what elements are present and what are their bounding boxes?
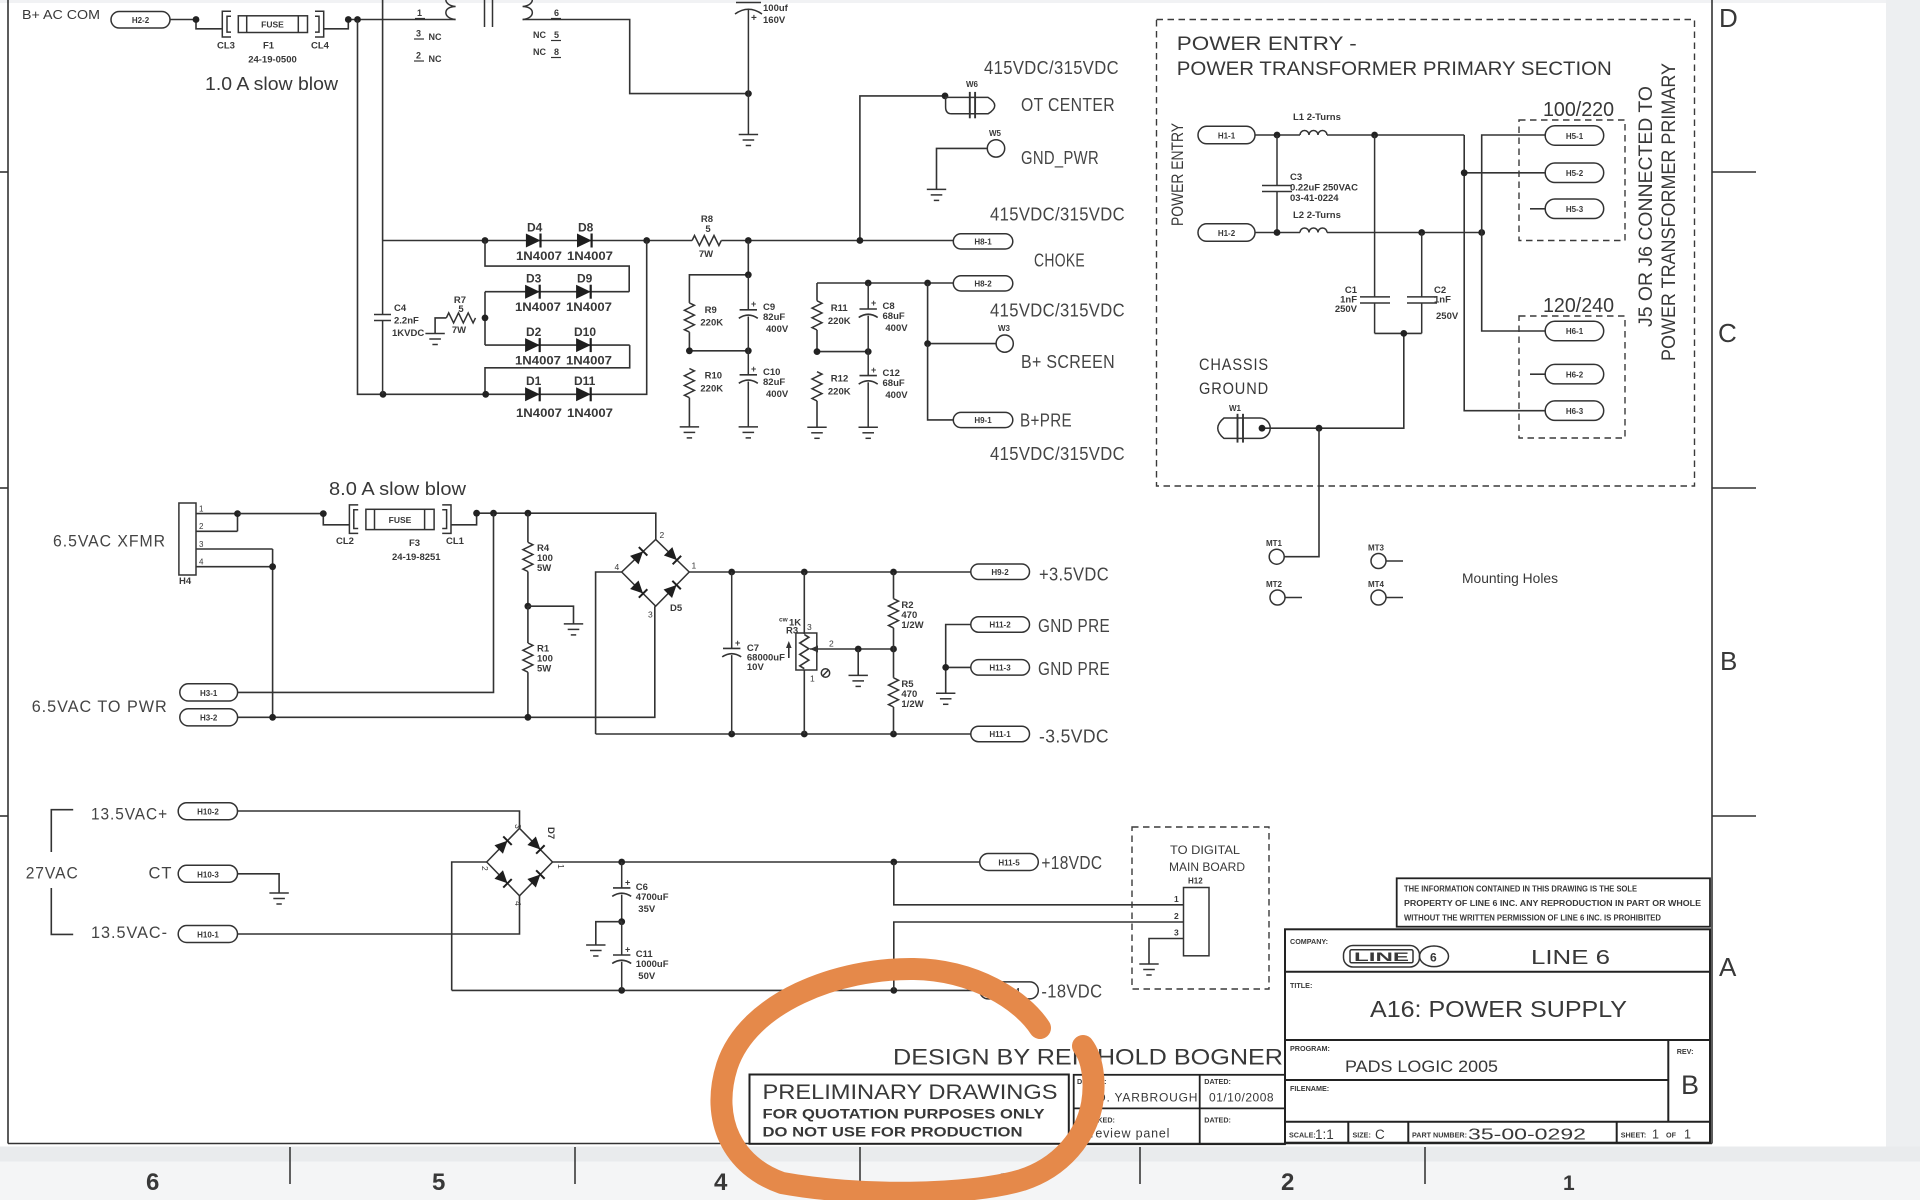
svg-text:D2: D2 bbox=[526, 325, 542, 339]
info box bbox=[1397, 878, 1710, 926]
svg-text:+: + bbox=[751, 364, 756, 374]
svg-text:82uF: 82uF bbox=[763, 377, 785, 388]
svg-text:3: 3 bbox=[1174, 928, 1179, 938]
wire H10-3 to ground bbox=[238, 874, 280, 893]
connector H5-3 bbox=[1545, 199, 1604, 219]
svg-text:13.5VAC+: 13.5VAC+ bbox=[91, 806, 168, 824]
svg-text:C4: C4 bbox=[394, 303, 407, 314]
preliminary drawings box bbox=[750, 1075, 1069, 1144]
svg-text:W3: W3 bbox=[998, 324, 1011, 333]
svg-text:H5-2: H5-2 bbox=[1566, 169, 1584, 178]
svg-text:D7: D7 bbox=[545, 827, 556, 839]
svg-text:1.0 A slow blow: 1.0 A slow blow bbox=[205, 74, 339, 94]
junction bbox=[814, 348, 821, 355]
connector H11-3 bbox=[971, 660, 1030, 676]
label SHEET: 1 OF 1 bbox=[1621, 1128, 1691, 1142]
label C8 68uF 400V bbox=[883, 301, 909, 334]
junction bbox=[193, 16, 200, 23]
diode D3 bbox=[525, 285, 540, 299]
svg-text:400V: 400V bbox=[766, 324, 789, 335]
svg-text:H3-2: H3-2 bbox=[200, 714, 218, 723]
svg-text:B+ AC COM: B+ AC COM bbox=[22, 7, 100, 22]
svg-text:6.5VAC XFMR: 6.5VAC XFMR bbox=[53, 533, 166, 551]
svg-text:400V: 400V bbox=[766, 389, 789, 400]
wire R10 to ground bbox=[688, 398, 690, 427]
svg-text:35V: 35V bbox=[638, 904, 656, 915]
svg-text:415VDC/315VDC: 415VDC/315VDC bbox=[984, 58, 1119, 78]
ground (C6/C11 mid) bbox=[586, 945, 605, 956]
junction bbox=[745, 347, 752, 354]
svg-text:+: + bbox=[735, 638, 740, 648]
mounting hole MT3 bbox=[1371, 554, 1403, 569]
connector H6-3 bbox=[1545, 401, 1604, 421]
svg-text:H11-2: H11-2 bbox=[989, 621, 1011, 630]
bracket 27VAC bbox=[51, 810, 73, 935]
svg-text:PROGRAM:: PROGRAM: bbox=[1290, 1044, 1330, 1053]
label C7 68000uF 10V bbox=[747, 643, 785, 673]
svg-text:REV:: REV: bbox=[1677, 1047, 1694, 1056]
label C11 1000uF 50V bbox=[636, 949, 669, 982]
svg-text:+: + bbox=[751, 13, 757, 24]
svg-text:GND PRE: GND PRE bbox=[1038, 659, 1110, 679]
svg-text:CL3: CL3 bbox=[217, 41, 235, 52]
junction bbox=[1461, 169, 1468, 176]
resistor R12 bbox=[812, 372, 822, 401]
svg-text:-18VDC: -18VDC bbox=[1041, 982, 1102, 1002]
svg-text:D8: D8 bbox=[578, 221, 594, 235]
wire L1 output bbox=[1327, 134, 1464, 136]
dashed box TO DIGITAL MAIN BOARD bbox=[1132, 827, 1269, 989]
svg-text:3: 3 bbox=[648, 610, 653, 620]
wire D3/D9 return loop bbox=[485, 241, 629, 292]
svg-text:DATED:: DATED: bbox=[1204, 1077, 1231, 1086]
wire chassis to MT1 bbox=[1284, 428, 1319, 557]
wire H6-2 stub bbox=[1530, 373, 1545, 375]
junction (R7 tap) bbox=[482, 315, 489, 322]
svg-text:6: 6 bbox=[146, 1169, 159, 1196]
pin 1 label bbox=[415, 8, 425, 19]
svg-text:01/10/2008: 01/10/2008 bbox=[1209, 1091, 1274, 1105]
junction bbox=[269, 714, 276, 721]
svg-text:4: 4 bbox=[714, 1169, 728, 1196]
ground (R12) bbox=[807, 427, 826, 438]
junction bbox=[269, 563, 276, 570]
wire pin6 to C5 node bbox=[523, 20, 749, 94]
svg-text:-3.5VDC: -3.5VDC bbox=[1039, 727, 1109, 747]
title block frame bbox=[1285, 929, 1710, 1142]
svg-text:160V: 160V bbox=[763, 15, 786, 26]
svg-text:2: 2 bbox=[660, 530, 665, 540]
svg-text:1: 1 bbox=[1174, 894, 1179, 904]
zone ticks bottom bbox=[290, 1147, 1425, 1184]
svg-text:H1-2: H1-2 bbox=[1218, 229, 1236, 238]
ground (H11-2/3) bbox=[936, 693, 955, 704]
label R1 100 5W bbox=[537, 644, 553, 675]
wire H9-1 branch bbox=[928, 344, 954, 420]
fuse clip CL3 bbox=[222, 11, 231, 37]
diode D9 bbox=[576, 285, 591, 299]
svg-text:POWER TRANSFORMER PRIMARY: POWER TRANSFORMER PRIMARY bbox=[1659, 63, 1680, 361]
svg-text:H6-2: H6-2 bbox=[1566, 370, 1584, 379]
svg-text:cw: cw bbox=[779, 617, 789, 624]
svg-text:4: 4 bbox=[199, 558, 204, 567]
svg-text:R10: R10 bbox=[705, 371, 722, 382]
svg-text:MAIN BOARD: MAIN BOARD bbox=[1169, 862, 1245, 874]
svg-text:5: 5 bbox=[432, 1169, 445, 1196]
ground (H12) bbox=[1139, 964, 1158, 975]
ground (C12) bbox=[859, 427, 878, 438]
junction bbox=[855, 646, 862, 653]
svg-text:H4: H4 bbox=[179, 576, 192, 587]
svg-text:review panel: review panel bbox=[1090, 1127, 1170, 1141]
wire H4 pin3/pin4 bbox=[196, 549, 273, 717]
svg-text:1/2W: 1/2W bbox=[901, 620, 923, 631]
wire H11-3 bbox=[946, 667, 971, 693]
svg-text:MT4: MT4 bbox=[1368, 580, 1385, 589]
wire B+ rail (D4/D8 row) bbox=[383, 240, 954, 242]
capacitor C10 82uF 400V bbox=[739, 351, 758, 427]
capacitor C9 82uF 400V bbox=[739, 275, 758, 351]
connector H11-5 bbox=[980, 854, 1039, 871]
ground (CT) bbox=[269, 893, 288, 904]
connector H4 bbox=[179, 503, 204, 587]
label R8 5 7W bbox=[699, 214, 713, 260]
svg-text:35-00-0292: 35-00-0292 bbox=[1468, 1127, 1586, 1144]
resistor R1 bbox=[523, 606, 533, 717]
capacitor C1 1nF 250V bbox=[1360, 135, 1390, 333]
label C9 82uF 400V bbox=[763, 302, 789, 335]
wire L1 node to H5-2 and H6-3 bbox=[1464, 135, 1545, 411]
connector H9-1 bbox=[953, 412, 1013, 427]
svg-text:NC: NC bbox=[429, 32, 442, 42]
svg-text:PRELIMINARY DRAWINGS: PRELIMINARY DRAWINGS bbox=[763, 1080, 1058, 1104]
wire D7 pin2 to -18 rail bbox=[452, 862, 980, 990]
junction bbox=[924, 340, 931, 347]
svg-text:TITLE:: TITLE: bbox=[1290, 981, 1312, 990]
svg-text:5: 5 bbox=[705, 224, 711, 235]
connector H9-2 bbox=[971, 564, 1030, 580]
connector H8-1 bbox=[953, 234, 1013, 249]
svg-text:H10-3: H10-3 bbox=[197, 870, 219, 879]
junction bbox=[1478, 229, 1485, 236]
junction bbox=[525, 714, 532, 721]
svg-text:A: A bbox=[1719, 952, 1737, 982]
diode D1 bbox=[525, 387, 540, 401]
svg-text:D1: D1 bbox=[526, 374, 542, 388]
svg-text:D3: D3 bbox=[526, 272, 542, 286]
svg-text:220K: 220K bbox=[700, 318, 723, 329]
svg-text:1N4007: 1N4007 bbox=[516, 406, 562, 420]
junction bbox=[924, 280, 931, 287]
svg-text:B: B bbox=[1681, 1070, 1699, 1100]
capacitor C2 1nF 250V bbox=[1407, 233, 1437, 334]
svg-text:D: D bbox=[1719, 3, 1738, 33]
junction bbox=[618, 918, 625, 925]
svg-text:1N4007: 1N4007 bbox=[567, 249, 613, 263]
svg-text:R9: R9 bbox=[705, 305, 717, 316]
svg-text:5: 5 bbox=[458, 304, 464, 315]
resistor R2 bbox=[889, 572, 899, 649]
svg-text:3: 3 bbox=[199, 540, 204, 549]
pin 2 NC label bbox=[414, 51, 442, 65]
junction bbox=[890, 731, 897, 738]
svg-text:L2 2-Turns: L2 2-Turns bbox=[1293, 210, 1341, 221]
svg-text:1: 1 bbox=[556, 864, 566, 869]
svg-text:L1 2-Turns: L1 2-Turns bbox=[1293, 112, 1341, 123]
connector H3-2 bbox=[180, 709, 238, 726]
potentiometer R3 1K bbox=[786, 572, 832, 734]
svg-text:1000uF: 1000uF bbox=[636, 959, 669, 970]
label TO DIGITAL MAIN BOARD bbox=[1169, 845, 1245, 874]
section title POWER ENTRY - POWER TRANSFORMER PRIMARY SECTION bbox=[1177, 33, 1612, 80]
svg-text:W5: W5 bbox=[989, 129, 1002, 138]
svg-text:1: 1 bbox=[1684, 1128, 1691, 1142]
junction bbox=[865, 348, 872, 355]
connector H11-2 bbox=[971, 617, 1030, 633]
svg-text:F3: F3 bbox=[409, 538, 420, 549]
junction bbox=[1259, 425, 1266, 432]
connector H3-1 bbox=[180, 684, 238, 701]
wire H10-1 to bridge pin 4 bbox=[238, 896, 520, 934]
label R5 470 1/2W bbox=[901, 679, 923, 710]
bridge rectifier D7 bbox=[487, 828, 553, 896]
label R9 220K bbox=[700, 305, 723, 329]
svg-text:C: C bbox=[1718, 318, 1737, 348]
svg-text:H6-1: H6-1 bbox=[1566, 327, 1584, 336]
svg-text:1N4007: 1N4007 bbox=[567, 406, 613, 420]
ground (C5) bbox=[739, 135, 758, 146]
svg-text:D5: D5 bbox=[670, 603, 683, 614]
connector W5 bbox=[987, 140, 1004, 157]
connector H8-2 bbox=[953, 276, 1013, 291]
svg-text:LINE 6: LINE 6 bbox=[1531, 947, 1610, 969]
wire H12 pin 3 to ground bbox=[1149, 939, 1184, 965]
svg-text:H11-5: H11-5 bbox=[998, 859, 1020, 868]
svg-text:50V: 50V bbox=[638, 971, 656, 982]
wire H5-3 stub bbox=[1530, 208, 1545, 210]
ground (W5) bbox=[927, 189, 946, 200]
svg-text:1: 1 bbox=[810, 674, 815, 684]
junction bbox=[1418, 229, 1425, 236]
svg-text:1: 1 bbox=[692, 561, 697, 571]
svg-text:220K: 220K bbox=[700, 384, 723, 395]
junction bbox=[1400, 330, 1407, 337]
svg-text:H10-2: H10-2 bbox=[197, 808, 219, 817]
svg-text:1: 1 bbox=[1563, 1172, 1575, 1195]
svg-text:+18VDC: +18VDC bbox=[1041, 853, 1102, 873]
svg-text:PADS LOGIC 2005: PADS LOGIC 2005 bbox=[1345, 1057, 1498, 1076]
wire H3-2 row to bridge pin 3 bbox=[238, 606, 655, 717]
label R12 220K bbox=[828, 374, 851, 398]
svg-text:1:1: 1:1 bbox=[1315, 1127, 1334, 1142]
svg-text:1N4007: 1N4007 bbox=[516, 249, 562, 263]
group dashed box 120/240 bbox=[1519, 316, 1625, 438]
label C3 0.22uF 250VAC 03-41-0224 bbox=[1290, 172, 1358, 204]
svg-text:OF: OF bbox=[1666, 1131, 1677, 1140]
svg-text:H5-1: H5-1 bbox=[1566, 132, 1584, 141]
fuse F1 bbox=[238, 16, 307, 33]
svg-text:1N4007: 1N4007 bbox=[515, 300, 561, 314]
svg-text:H2-2: H2-2 bbox=[132, 16, 150, 25]
svg-text:CHOKE: CHOKE bbox=[1034, 251, 1085, 271]
capacitor C8 68uF 400V bbox=[859, 283, 878, 352]
label C6 4700uF 35V bbox=[636, 882, 669, 915]
svg-text:6.5VAC TO PWR: 6.5VAC TO PWR bbox=[32, 698, 168, 716]
label SCALE: 1:1 bbox=[1289, 1127, 1334, 1142]
svg-text:PROPERTY OF LINE 6 INC. ANY R: PROPERTY OF LINE 6 INC. ANY REPRODUCTION… bbox=[1404, 899, 1702, 908]
svg-text:MT3: MT3 bbox=[1368, 544, 1385, 553]
junction bbox=[473, 510, 480, 517]
wire H2-2 to fuse F1 bbox=[170, 20, 222, 29]
svg-text:CT: CT bbox=[149, 865, 173, 883]
svg-text:DO NOT USE FOR PRODUCTION: DO NOT USE FOR PRODUCTION bbox=[763, 1125, 1023, 1140]
jumper W6 bbox=[946, 92, 995, 118]
svg-text:+: + bbox=[871, 365, 876, 375]
junction bbox=[865, 280, 872, 287]
wire R7 left lead to ground bbox=[435, 318, 446, 334]
svg-text:250V: 250V bbox=[1436, 311, 1459, 322]
svg-text:2: 2 bbox=[1281, 1169, 1294, 1196]
diode D4 bbox=[526, 234, 541, 248]
svg-text:H11-3: H11-3 bbox=[989, 664, 1011, 673]
junction bbox=[482, 391, 489, 398]
svg-text:B+PRE: B+PRE bbox=[1020, 411, 1072, 431]
svg-text:3: 3 bbox=[416, 29, 421, 39]
svg-text:FILENAME:: FILENAME: bbox=[1290, 1084, 1329, 1093]
capacitor C5 100uf 160V (cut at top) bbox=[735, 3, 762, 135]
connector H10-2 bbox=[178, 803, 237, 820]
capacitor C7 68000uF 10V bbox=[722, 572, 741, 734]
svg-text:220K: 220K bbox=[828, 387, 851, 398]
label R11 220K bbox=[828, 303, 851, 327]
svg-text:WITHOUT THE WRITTEN PERMISSION: WITHOUT THE WRITTEN PERMISSION OF LINE 6… bbox=[1404, 914, 1661, 923]
svg-text:H8-2: H8-2 bbox=[974, 280, 992, 289]
wire C1/C2 common to chassis bbox=[1264, 333, 1422, 428]
inductor L1 bbox=[1300, 131, 1327, 136]
capacitor C3 bbox=[1262, 135, 1292, 233]
wire wiper to ground bbox=[857, 649, 859, 675]
svg-text:2: 2 bbox=[416, 51, 421, 61]
wire R11 to mid rail bbox=[817, 330, 868, 352]
svg-text:400V: 400V bbox=[885, 390, 908, 401]
connector H6-1 bbox=[1545, 321, 1604, 341]
connector H5-1 bbox=[1545, 126, 1604, 146]
connector H6-2 bbox=[1545, 364, 1604, 384]
connector H1-2 bbox=[1198, 224, 1255, 242]
svg-text:7W: 7W bbox=[452, 325, 466, 336]
wire R3 wiper bbox=[832, 648, 894, 650]
svg-text:CL2: CL2 bbox=[336, 536, 354, 547]
ground (R7) bbox=[425, 334, 444, 345]
svg-text:D9: D9 bbox=[577, 272, 593, 286]
label PART NUMBER: 35-00-0292 bbox=[1412, 1127, 1586, 1144]
svg-text:7W: 7W bbox=[699, 249, 713, 260]
svg-text:3: 3 bbox=[513, 824, 523, 829]
svg-text:CL4: CL4 bbox=[311, 41, 330, 52]
label C4 2.2nF 1KVDC bbox=[392, 303, 424, 339]
svg-text:415VDC/315VDC: 415VDC/315VDC bbox=[990, 301, 1125, 321]
connector H10-3 bbox=[178, 865, 237, 882]
mounting hole MT2 bbox=[1270, 590, 1302, 605]
pin 5 NC label bbox=[533, 30, 561, 41]
svg-text:5W: 5W bbox=[537, 563, 551, 574]
svg-text:415VDC/315VDC: 415VDC/315VDC bbox=[990, 444, 1125, 464]
svg-text:+3.5VDC: +3.5VDC bbox=[1039, 565, 1109, 585]
svg-text:POWER TRANSFORMER PRIMARY SECT: POWER TRANSFORMER PRIMARY SECTION bbox=[1177, 58, 1612, 80]
svg-text:415VDC/315VDC: 415VDC/315VDC bbox=[990, 205, 1125, 225]
svg-text:GROUND: GROUND bbox=[1199, 380, 1269, 398]
junction bbox=[745, 271, 752, 278]
fuse clip CL1 bbox=[442, 505, 451, 534]
label R3 1K cw bbox=[779, 617, 834, 684]
wire H4 to fuse F3 bbox=[238, 514, 350, 525]
svg-text:1N4007: 1N4007 bbox=[566, 354, 612, 368]
wire to H3-1 bbox=[238, 513, 494, 692]
junction bbox=[890, 646, 897, 653]
svg-text:8: 8 bbox=[554, 47, 559, 57]
connector H1-1 bbox=[1198, 126, 1255, 144]
junction bbox=[686, 347, 693, 354]
junction bbox=[380, 391, 387, 398]
svg-text:8.0 A slow blow: 8.0 A slow blow bbox=[329, 479, 467, 499]
pin 8 NC label bbox=[533, 47, 561, 58]
diode D8 bbox=[577, 234, 592, 248]
junction bbox=[618, 987, 625, 994]
wire D3 row to D2 row link bbox=[484, 292, 486, 345]
svg-text:NC: NC bbox=[533, 30, 546, 40]
svg-text:DATED:: DATED: bbox=[1204, 1116, 1231, 1125]
label CHASSIS GROUND bbox=[1199, 356, 1269, 398]
svg-text:13.5VAC-: 13.5VAC- bbox=[91, 924, 168, 942]
wire H8-2 rail bbox=[817, 283, 953, 301]
label 100uf 160V bbox=[763, 3, 789, 26]
svg-text:Mounting Holes: Mounting Holes bbox=[1462, 571, 1558, 586]
wire D1/D11 bottom rail bbox=[358, 20, 647, 395]
svg-text:COMPANY:: COMPANY: bbox=[1290, 937, 1328, 946]
svg-text:R11: R11 bbox=[831, 303, 849, 314]
svg-text:4700uF: 4700uF bbox=[636, 892, 669, 903]
svg-text:W1: W1 bbox=[1229, 404, 1242, 413]
connector W3 bbox=[996, 335, 1013, 352]
resistor R11 bbox=[812, 301, 822, 330]
svg-text:2: 2 bbox=[199, 522, 204, 531]
label C10 82uF 400V bbox=[763, 367, 789, 400]
svg-text:TO DIGITAL: TO DIGITAL bbox=[1170, 845, 1241, 857]
svg-text:+: + bbox=[625, 878, 630, 888]
pin 3 NC label bbox=[414, 29, 442, 43]
connector H11-4 bbox=[980, 982, 1039, 999]
wire D2/D10 row bbox=[485, 344, 630, 346]
resistor R4 bbox=[523, 513, 533, 606]
svg-text:D11: D11 bbox=[574, 374, 596, 388]
svg-text:MT1: MT1 bbox=[1266, 539, 1283, 548]
junction bbox=[1316, 425, 1323, 432]
wire W5 to ground bbox=[937, 148, 988, 189]
svg-text:4: 4 bbox=[615, 562, 620, 572]
svg-text:1: 1 bbox=[417, 8, 422, 18]
svg-text:C3: C3 bbox=[1290, 172, 1302, 183]
junction bbox=[1371, 132, 1378, 139]
wire D5 pin1 +3.5 rail bbox=[689, 571, 971, 573]
label R7 5 7W bbox=[452, 295, 466, 336]
svg-text:SHEET:: SHEET: bbox=[1621, 1131, 1647, 1140]
transformer T1 (B+ power transformer, cut at top) bbox=[446, 0, 532, 27]
svg-text:CHASSIS: CHASSIS bbox=[1199, 356, 1269, 374]
wire mid tap to ground bbox=[528, 606, 574, 624]
svg-text:27VAC: 27VAC bbox=[26, 865, 79, 883]
label R10 220K bbox=[700, 371, 723, 395]
junction bbox=[745, 90, 752, 97]
